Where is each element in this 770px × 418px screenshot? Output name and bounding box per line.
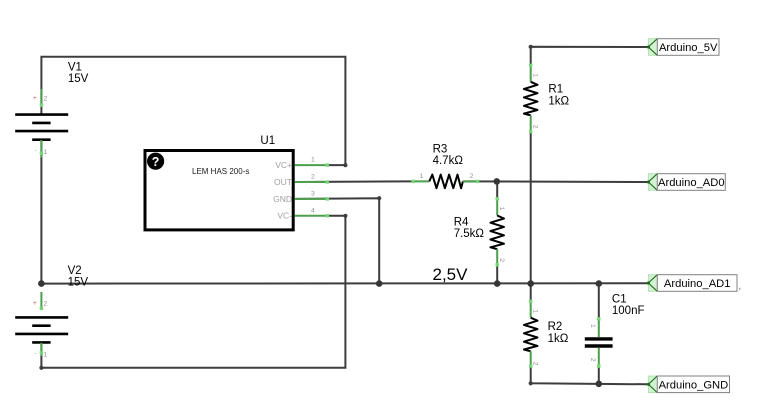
resistor R1	[524, 64, 539, 134]
wire Arduino_5V to R1	[531, 47, 649, 65]
label R4 7.5kΩ	[454, 217, 485, 241]
wire U1 GND down to 2,5V rail	[296, 198, 379, 283]
svg-text:VC-: VC-	[277, 211, 292, 221]
svg-text:2: 2	[589, 358, 596, 362]
wire endpoint GND pin	[377, 196, 381, 200]
capacitor C1	[585, 317, 613, 368]
wire R3 to Arduino_AD0	[463, 180, 648, 183]
svg-text:Arduino_GND: Arduino_GND	[659, 379, 729, 391]
svg-text:+: +	[33, 300, 37, 307]
svg-text:OUT: OUT	[274, 177, 292, 187]
svg-text:1kΩ: 1kΩ	[548, 333, 569, 345]
resistor R4	[490, 197, 505, 267]
wire V1- to node 2,5V	[40, 140, 42, 284]
label C1 100nF	[612, 293, 645, 317]
svg-text:1: 1	[420, 173, 424, 180]
svg-text:Arduino_AD1: Arduino_AD1	[664, 278, 731, 290]
svg-text:2: 2	[44, 301, 48, 308]
label R3 4.7kΩ	[433, 143, 464, 167]
label V2 15V	[68, 265, 89, 288]
battery V2 pin 2 plus mark	[33, 300, 48, 308]
junction R3 R4 AD0	[494, 178, 501, 185]
junction U1 GND rail	[376, 280, 383, 287]
svg-text:2: 2	[532, 362, 539, 366]
svg-text:VC+: VC+	[275, 160, 292, 170]
svg-text:-: -	[35, 350, 37, 357]
wire V2- bottom to U1 VC-	[41, 216, 345, 368]
svg-text:V1: V1	[68, 62, 82, 74]
wire R4 column top	[496, 181, 498, 198]
svg-text:U1: U1	[260, 135, 275, 147]
svg-text:R1: R1	[548, 84, 563, 96]
svg-text:R4: R4	[454, 217, 469, 229]
wire V1+ top rail	[41, 57, 345, 165]
svg-text:+: +	[33, 95, 37, 102]
svg-text:1: 1	[44, 352, 48, 359]
svg-text:V2: V2	[68, 265, 82, 277]
resistor R2	[524, 300, 539, 368]
resistor R3	[411, 173, 479, 188]
svg-text:1: 1	[589, 324, 596, 328]
svg-text:1: 1	[44, 149, 48, 156]
wire 2,5V rail to R2	[530, 284, 532, 301]
wire endpoint VC-	[343, 214, 347, 218]
wire C1 to GND rail	[598, 367, 600, 384]
junction V1- V2+ rail	[38, 280, 45, 287]
wire U1 OUT to R3	[296, 180, 411, 183]
wire endpoint V2 bottom corner	[39, 366, 43, 370]
svg-text:Arduino_5V: Arduino_5V	[659, 42, 718, 54]
svg-text:2,5V: 2,5V	[433, 265, 469, 284]
svg-text:2: 2	[44, 96, 48, 103]
svg-text:7.5kΩ: 7.5kΩ	[454, 228, 485, 240]
svg-text:4.7kΩ: 4.7kΩ	[433, 155, 464, 167]
wire R4 column bottom	[496, 266, 498, 284]
label R2 1kΩ	[548, 321, 569, 345]
net label Arduino_GND	[647, 376, 730, 393]
svg-text:2: 2	[470, 173, 474, 180]
net label Arduino_5V	[647, 39, 719, 56]
wire U1 VC- to corner	[329, 215, 345, 217]
junction C1 rail	[596, 280, 603, 287]
svg-text:1: 1	[532, 309, 539, 313]
battery V1 pin 1 minus mark	[35, 148, 48, 157]
svg-text:100nF: 100nF	[612, 305, 645, 317]
IC U1 LEM HAS 200-s	[145, 151, 293, 230]
svg-text:LEM HAS 200-s: LEM HAS 200-s	[192, 167, 249, 176]
junction R4 rail	[494, 280, 501, 287]
wire node 2,5V rail to Arduino_AD1	[41, 282, 648, 284]
svg-text:1: 1	[532, 73, 539, 77]
wire R1 to 2,5V rail	[530, 133, 532, 284]
U1 pin 2 OUT	[274, 174, 329, 187]
junction R1 R2 rail	[527, 280, 534, 287]
wire 2,5V rail to C1	[598, 284, 600, 318]
label V1 15V	[68, 62, 89, 85]
svg-text:-: -	[35, 148, 37, 155]
svg-text:?: ?	[152, 155, 160, 169]
U1 pin 1 VC+	[275, 157, 329, 170]
svg-text:3: 3	[311, 191, 315, 198]
wire U1 VC+ to corner	[329, 164, 345, 166]
wire endpoint R1 top corner	[529, 45, 533, 49]
svg-text:1: 1	[311, 157, 315, 164]
net label Arduino_AD0	[647, 174, 725, 191]
svg-text:R3: R3	[433, 143, 448, 155]
svg-text:15V: 15V	[68, 276, 89, 288]
wire endpoint VC+	[343, 163, 347, 167]
svg-text:1: 1	[498, 207, 505, 211]
svg-text:15V: 15V	[68, 73, 89, 85]
svg-text:4: 4	[311, 207, 315, 214]
svg-text:R2: R2	[548, 321, 563, 333]
wire R2 to GND rail	[531, 367, 649, 385]
wire endpoint R2 bottom corner	[529, 381, 533, 385]
svg-text:,: ,	[738, 278, 741, 292]
svg-text:GND: GND	[273, 194, 292, 204]
svg-text:C1: C1	[612, 293, 627, 305]
net label Arduino_AD1	[647, 275, 741, 292]
svg-text:2: 2	[311, 174, 315, 181]
battery V2	[15, 292, 68, 356]
U1 pin 3 GND	[273, 191, 329, 204]
svg-text:2: 2	[532, 125, 539, 129]
svg-text:1kΩ: 1kΩ	[548, 95, 569, 107]
svg-text:2: 2	[498, 258, 505, 262]
label R1 1kΩ	[548, 84, 569, 108]
battery V1 pin 2 plus mark	[33, 95, 48, 103]
U1 pin 4 VC-	[277, 207, 329, 220]
battery V1	[15, 89, 68, 158]
junction C1 GND rail	[596, 381, 603, 388]
battery V2 pin 1 minus mark	[35, 350, 48, 359]
svg-text:Arduino_AD0: Arduino_AD0	[658, 177, 725, 189]
